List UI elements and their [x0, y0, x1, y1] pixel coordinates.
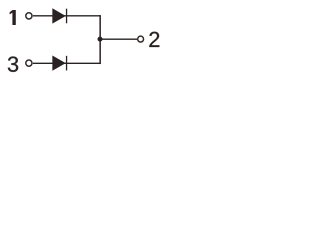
diode D1 triangle	[52, 8, 65, 23]
diode D2 cathode bar	[66, 56, 67, 71]
wire pin1 to diode D1 anode	[33, 15, 101, 17]
diode D1 cathode bar	[66, 9, 67, 24]
terminal circle pin 3	[26, 60, 32, 66]
pin label 1 (drawn path: flag + stem)	[10, 10, 16, 25]
wire pin3 to diode D2 anode	[33, 62, 101, 64]
diode D2 triangle	[52, 56, 65, 71]
pin label 2	[149, 32, 159, 47]
pin label 3	[8, 56, 18, 71]
wire vertical cathode bus	[99, 15, 101, 64]
terminal circle pin 1	[26, 13, 32, 19]
wire node to pin 2	[99, 38, 137, 40]
junction node dot	[98, 37, 103, 42]
terminal circle pin 2	[138, 36, 144, 42]
